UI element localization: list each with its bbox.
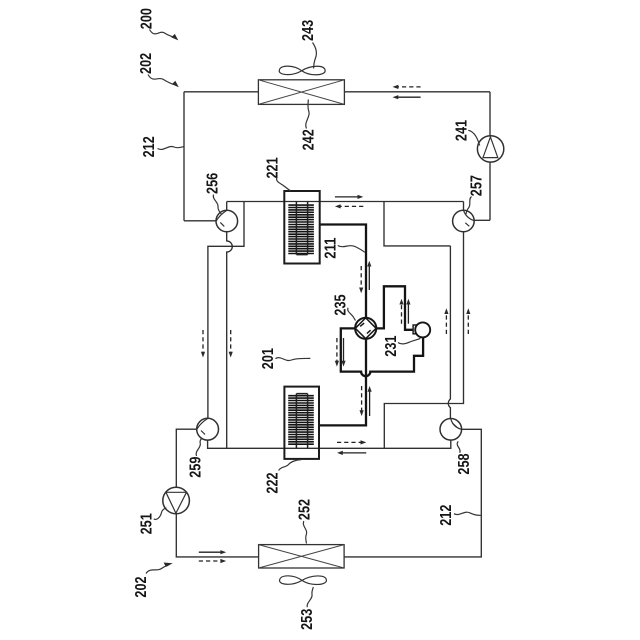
arrow dashed down left line x203 <box>201 330 205 358</box>
svg-text:235: 235 <box>333 294 350 315</box>
svg-text:200: 200 <box>139 8 156 29</box>
wire bold refrigerant HX221 right to 4-way valve top <box>320 225 366 318</box>
wire radiator 252 right to valve 258 right <box>344 429 481 557</box>
leader 200 <box>150 30 179 41</box>
svg-text:202: 202 <box>138 53 155 74</box>
leader 201 <box>275 358 310 361</box>
svg-text:212: 212 <box>438 505 455 526</box>
svg-text:252: 252 <box>297 499 314 520</box>
leader 241 <box>468 130 479 145</box>
svg-text:259: 259 <box>188 456 205 477</box>
wire down into valve 257 top <box>463 202 465 211</box>
valve 256 <box>216 210 238 232</box>
wire branch T at 244 down-left to valve 259 top <box>208 202 244 419</box>
wire bold discharge line valve right to compressor tab <box>376 286 413 330</box>
svg-text:241: 241 <box>454 120 471 141</box>
wire HX221 branch T down to valve 258 top with hop <box>384 202 450 246</box>
fan 253 propeller <box>280 576 327 585</box>
arrow dashed right above HX222 pipe <box>337 440 366 444</box>
leader 256 <box>213 195 221 215</box>
svg-text:231: 231 <box>383 335 400 356</box>
radiator 252 diagonals <box>259 545 345 568</box>
wire bold refrigerant 4-way valve bottom to HX222 right <box>319 339 366 426</box>
arrow dashed up right line x468 <box>466 308 470 334</box>
valve 258 <box>440 419 462 441</box>
radiator 242 box <box>258 80 344 105</box>
compressor 231 tab <box>413 325 419 334</box>
svg-text:201: 201 <box>260 348 277 369</box>
arrow dashed down left line x230 <box>229 330 233 358</box>
pump 241 <box>477 136 503 162</box>
wire into valve 256 left <box>184 220 216 222</box>
leader 231 <box>398 338 420 344</box>
compressor 231 body <box>415 322 430 337</box>
radiator 242 diagonals <box>258 80 344 105</box>
valve 259 <box>197 418 219 440</box>
leader 252 <box>303 521 306 544</box>
arrow dashed down above 4way valve <box>359 266 363 293</box>
arrow solid down right of suction line <box>341 338 345 367</box>
wire through-pipe of HX 221 <box>227 201 464 203</box>
svg-text:202: 202 <box>133 576 150 597</box>
heat exchanger U222 hatch <box>288 396 314 445</box>
svg-text:258: 258 <box>456 453 473 474</box>
pump 251 <box>163 487 190 514</box>
wire valve 259 bottom to through-pipe of HX 222 <box>208 440 451 448</box>
svg-text:243: 243 <box>300 20 317 41</box>
arrow solid right above HX221 pipe <box>335 195 363 199</box>
leader 211 <box>338 246 365 253</box>
arrow solid up below 4way valve <box>368 386 372 416</box>
svg-text:212: 212 <box>141 136 158 157</box>
arrow dashed left above top-right pipe <box>393 85 421 89</box>
wire vertical into valve 258 top with hop <box>448 246 450 419</box>
arrow solid up compressor loop right <box>406 299 410 324</box>
four-way valve 235 <box>355 318 376 339</box>
heat exchanger U221 box <box>284 191 319 264</box>
svg-text:211: 211 <box>323 237 340 259</box>
heat exchanger U222 box <box>284 387 319 459</box>
wire valve 259 left to corner <box>176 429 197 487</box>
leader 257 <box>466 197 472 215</box>
wire valve 256 bottom with hop crossing <box>227 232 233 448</box>
wire left outer vertical 212 <box>183 92 185 221</box>
fan 243 propeller <box>279 66 325 75</box>
svg-text:221: 221 <box>265 157 282 178</box>
wire bold suction line valve left to compressor bottom with hop <box>341 328 423 376</box>
leader 212 right <box>454 512 481 515</box>
arrow dashed up compressor loop left <box>399 299 403 324</box>
leader 212 left <box>158 146 185 149</box>
svg-text:242: 242 <box>300 129 317 150</box>
leader 222 <box>279 460 302 471</box>
arrow solid up above 4way valve <box>367 261 371 290</box>
wire valve 257 bottom to HX222 through-pipe branch <box>384 232 463 448</box>
leader 235 <box>348 308 356 321</box>
arrow solid right above bottom-left pipe <box>199 550 226 554</box>
leader 202 top <box>148 75 179 88</box>
heat exchanger U221 hatch <box>288 205 314 253</box>
svg-text:222: 222 <box>265 472 282 493</box>
leader 258 <box>457 441 460 452</box>
svg-text:251: 251 <box>139 513 156 534</box>
wire valve 257 right port <box>474 219 490 221</box>
leader 242 <box>306 100 309 129</box>
arrow solid left below HX222 pipe <box>337 451 366 455</box>
svg-text:257: 257 <box>469 175 486 196</box>
leader 243 <box>313 43 317 69</box>
wire top-right water pipe radiator 242 to right corner <box>344 91 490 93</box>
leader 259 <box>196 439 201 456</box>
svg-text:256: 256 <box>205 173 222 194</box>
arrow dashed up right line x446 <box>444 308 448 334</box>
arrow solid left below top-right pipe <box>393 95 421 99</box>
leader 251 <box>154 508 167 520</box>
arrow dashed left below HX221 pipe <box>335 204 363 208</box>
wire pump 251 bottom to radiator 252 <box>176 514 258 557</box>
heat exchanger U221 coil verticals <box>296 202 307 255</box>
arrow dashed right below bottom-left pipe <box>199 559 226 563</box>
wire top-left water pipe from radiator 242 to corner <box>184 91 258 93</box>
wire right outer vertical down to pump 241 <box>489 92 491 136</box>
wire pump 241 bottom to corner <box>489 162 491 220</box>
arrow dashed down left of suction line <box>335 338 339 367</box>
leader 253 <box>307 587 313 607</box>
heat exchanger U222 coil verticals <box>296 394 307 449</box>
arrow dashed down below 4way valve <box>360 386 364 416</box>
leader 221 <box>277 178 291 191</box>
radiator 252 box <box>259 545 345 568</box>
wire valve 256 top to through-pipe <box>226 202 228 211</box>
svg-text:253: 253 <box>299 608 316 629</box>
leader 202 bottom <box>146 563 173 574</box>
valve 257 <box>453 210 475 232</box>
